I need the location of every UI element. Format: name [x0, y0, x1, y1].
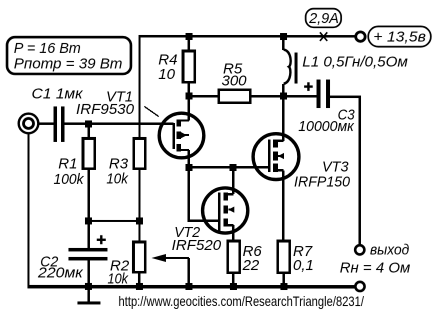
- VT2 gate wire: [189, 171, 219, 221]
- wire left rail: [27, 134, 29, 288]
- capacitor C1: [54, 106, 58, 142]
- terminal bottom rail: [355, 282, 364, 291]
- resistor R5: [219, 90, 251, 103]
- wire C1 to VT1 gate: [65, 123, 174, 125]
- capacitor C3: [317, 79, 321, 108]
- svg-text:22: 22: [242, 257, 260, 274]
- node R3/R2: [136, 217, 143, 224]
- wire R5 to C3: [250, 95, 316, 97]
- resistor R7: [278, 241, 290, 273]
- wire C3 to output: [330, 97, 360, 246]
- wire jack to C1: [39, 123, 54, 125]
- svg-text:http://www.geocities.com/Resea: http://www.geocities.com/ResearchTriangl…: [118, 293, 364, 309]
- svg-text:IRFP150: IRFP150: [294, 173, 351, 190]
- inductor L1: [282, 36, 284, 50]
- node top rail L1: [280, 33, 287, 40]
- capacitor C2: [88, 221, 90, 248]
- svg-text:2,9А: 2,9А: [308, 10, 339, 27]
- node VT2 drain: [230, 164, 237, 171]
- ground: [87, 288, 90, 302]
- svg-text:0,1: 0,1: [293, 257, 314, 274]
- node R2 gnd: [136, 283, 143, 290]
- svg-text:100k: 100k: [53, 171, 84, 188]
- node top rail R4: [185, 33, 192, 40]
- resistor R1: [83, 138, 95, 168]
- wire top rail: [140, 36, 356, 138]
- C2 plus: [97, 235, 106, 244]
- node R4/VT1 source: [185, 93, 192, 100]
- oval +13,5v: [368, 26, 431, 46]
- C3 plus: [304, 82, 313, 91]
- L1 core: [294, 53, 297, 84]
- resistor R2 (trimmer): [133, 242, 145, 272]
- svg-text:10000мк: 10000мк: [298, 118, 354, 135]
- svg-text:10k: 10k: [107, 271, 129, 288]
- node C2 gnd: [85, 283, 92, 290]
- transistor VT3 IRFP150: [253, 96, 299, 241]
- svg-text:10k: 10k: [106, 171, 129, 188]
- transistor VT1 IRF9530: [159, 113, 204, 167]
- pointer VT1: [144, 106, 159, 116]
- svg-text:Pпотр = 39 Вт: Pпотр = 39 Вт: [14, 55, 123, 72]
- svg-text:Rн = 4 Ом: Rн = 4 Ом: [340, 259, 411, 276]
- power note box: [7, 37, 131, 74]
- node R7 gnd: [280, 283, 287, 290]
- svg-text:220мк: 220мк: [37, 264, 84, 281]
- node input/R1: [85, 120, 92, 127]
- node VT1 drain: [185, 164, 192, 171]
- svg-text:выход: выход: [370, 242, 409, 259]
- svg-text:+ 13,5в: + 13,5в: [373, 28, 426, 45]
- svg-text:300: 300: [222, 72, 248, 89]
- wire bottom rail: [27, 285, 355, 289]
- oval 2,9A: [306, 9, 342, 28]
- terminal output: [355, 245, 364, 254]
- svg-text:10: 10: [158, 66, 175, 83]
- node wiper gnd: [185, 283, 192, 290]
- resistor R3: [134, 138, 146, 168]
- input jack X1: [19, 114, 39, 134]
- resistor R6: [228, 241, 240, 273]
- breaker X on top rail: [320, 32, 327, 41]
- node rail2/L1/VT3: [280, 93, 287, 100]
- svg-text:L1 0,5Гн/0,5Ом: L1 0,5Гн/0,5Ом: [302, 53, 408, 70]
- wire rail3: [189, 166, 270, 168]
- svg-text:C1 1мк: C1 1мк: [32, 85, 84, 102]
- terminal +13,5v: [356, 32, 365, 41]
- R2 wiper arrow: [155, 257, 189, 259]
- svg-text:IRF9530: IRF9530: [76, 101, 135, 118]
- wire R1-R3 bottom: [89, 220, 140, 222]
- svg-text:R1: R1: [58, 155, 77, 172]
- resistor R4: [188, 36, 190, 51]
- node R6 gnd: [230, 283, 237, 290]
- svg-text:IRF520: IRF520: [172, 237, 222, 254]
- transistor VT2 IRF520: [203, 167, 248, 241]
- node R1/C2: [85, 217, 92, 224]
- wire rail2: [189, 95, 219, 97]
